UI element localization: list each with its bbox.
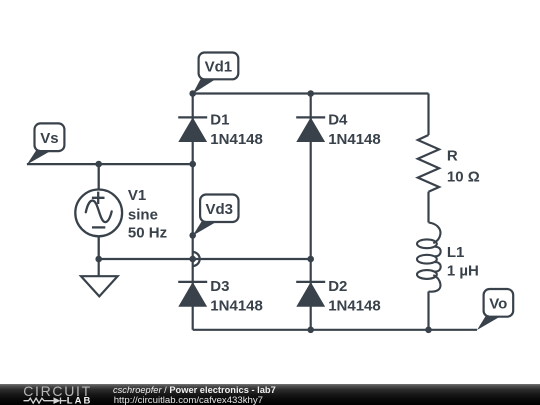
svg-text:http://circuitlab.com/cafvex43: http://circuitlab.com/cafvex433khy7 — [114, 395, 263, 405]
svg-text:D1: D1 — [210, 112, 229, 129]
diode D1 — [178, 117, 207, 140]
svg-text:D3: D3 — [210, 278, 229, 295]
wire D4-D2 vertical branch — [310, 94, 312, 330]
wire hop at crossing of ground bus and D1-D3 branch — [193, 252, 200, 266]
label V1 sine 50 Hz — [128, 187, 167, 242]
resistor R — [418, 135, 439, 192]
svg-text:1N4148: 1N4148 — [328, 297, 381, 314]
label L1 1uH — [447, 244, 479, 280]
svg-text:D2: D2 — [328, 278, 347, 295]
wire R-L1 vertical branch upper — [427, 94, 429, 136]
junction dot at hop crossing — [189, 256, 196, 263]
svg-text:D4: D4 — [328, 112, 348, 129]
junction dot node Vd3 — [189, 232, 196, 239]
wire Vs horizontal — [27, 163, 193, 165]
svg-text:Vo: Vo — [489, 295, 507, 312]
label D3 1N4148 — [210, 278, 263, 315]
junction dot Vs wire / D1 branch — [189, 161, 196, 168]
svg-text:1 µH: 1 µH — [447, 263, 479, 280]
diode D4 — [296, 117, 325, 140]
junction dot top rail / D4 — [307, 90, 314, 97]
wire mid ground bus — [99, 258, 311, 260]
logo squiggle resistor and diode — [24, 397, 67, 404]
svg-text:Vs: Vs — [40, 130, 58, 147]
inductor L1 — [417, 223, 441, 292]
footer bar — [0, 384, 540, 405]
wire bottom rail (node Vo) — [193, 329, 477, 331]
svg-text:1N4148: 1N4148 — [328, 131, 381, 148]
junction dot Vd1 corner — [189, 90, 196, 97]
node label Vd1 — [193, 53, 239, 94]
diode D2 — [296, 282, 325, 306]
wire D1-D3 vertical branch — [192, 94, 194, 330]
source V1 — [75, 164, 122, 259]
svg-text:50 Hz: 50 Hz — [128, 225, 167, 242]
svg-text:R: R — [447, 148, 458, 165]
ground — [81, 259, 118, 296]
node label Vs — [27, 123, 65, 164]
label D4 1N4148 — [328, 112, 381, 149]
svg-text:V1: V1 — [128, 187, 146, 204]
junction dot Vs wire / V1 — [95, 161, 102, 168]
node label Vd3 — [193, 195, 239, 236]
svg-text:Vd3: Vd3 — [205, 201, 233, 218]
node label Vo — [477, 289, 513, 330]
wire top rail (node Vd1) — [193, 92, 429, 94]
label D2 1N4148 — [328, 278, 381, 315]
junction dot bottom rail / L1 — [425, 327, 432, 334]
svg-text:10 Ω: 10 Ω — [447, 168, 480, 185]
junction dot ground bus / D4-D2 branch — [307, 256, 314, 263]
svg-text:L1: L1 — [447, 244, 465, 261]
svg-text:sine: sine — [128, 206, 158, 223]
label R 10 ohm — [447, 148, 480, 186]
svg-text:1N4148: 1N4148 — [210, 297, 263, 314]
wire R to L1 — [427, 192, 429, 223]
svg-text:cschroepfer / Power electronic: cschroepfer / Power electronics - lab7 — [113, 385, 276, 395]
svg-text:LAB: LAB — [67, 396, 93, 405]
svg-text:1N4148: 1N4148 — [210, 131, 263, 148]
junction dot bottom rail / D2 — [307, 327, 314, 334]
wire L1 to bottom rail — [427, 292, 429, 330]
svg-text:Vd1: Vd1 — [205, 59, 233, 76]
label D1 1N4148 — [210, 112, 263, 149]
junction dot V1 / ground bus — [95, 256, 102, 263]
diode D3 — [178, 282, 207, 306]
